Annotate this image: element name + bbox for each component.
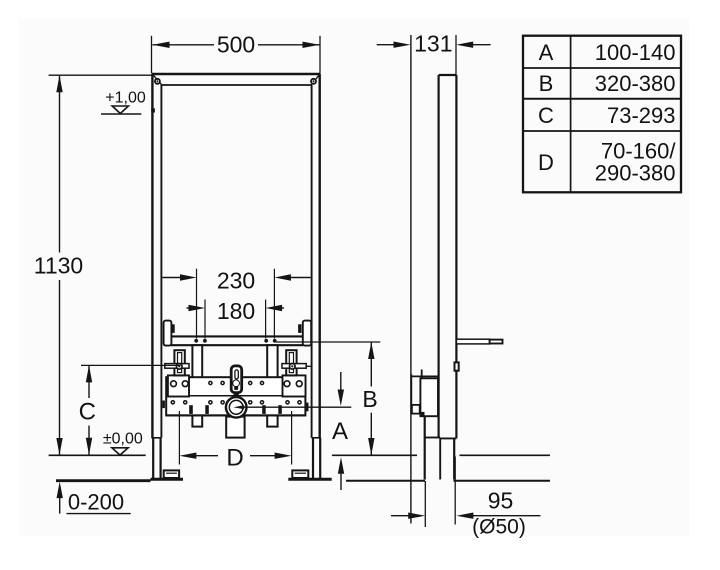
dim 131 text [414,31,452,57]
svg-text:±0,00: ±0,00 [103,431,143,448]
crossbar bolt 1 [194,339,198,343]
right plate hole 2 [296,381,302,387]
dim C line and arrows [86,365,92,454]
left bracket plate [168,375,189,396]
95 extension line front [424,481,426,527]
svg-text:95: 95 [488,488,514,514]
table row B label [539,71,554,96]
central slot fitting [231,366,242,397]
lower floor line segment left [56,479,151,482]
dimension table row dividers [523,68,681,131]
crossbar bolt 3 [264,339,268,343]
right adjuster link line [306,365,311,367]
side bracket foot block [412,405,420,414]
dim 180 extension lines [205,300,266,339]
svg-text:A: A [539,40,554,65]
95 extension line back [454,457,456,525]
dim B extension line [276,341,380,343]
left support post [192,345,202,426]
dim 95 line and arrows [391,513,541,519]
floor level line segment left [49,454,146,456]
dim 0-200 text [68,490,124,515]
side profile back edge [455,75,457,438]
drain pipe block [226,417,244,438]
side leg front edge [424,416,426,479]
dim 230 extension lines [197,269,275,339]
clamp block right edge [306,403,309,412]
frame left rail inner edge [160,85,162,438]
dim 1130 text [34,253,83,279]
left foot base plate [151,478,184,481]
right foot bracket [292,470,308,478]
frame top rail inner edge [162,84,312,86]
dim 95 text [488,488,514,514]
side profile top edge [439,74,457,76]
dim D text [226,445,243,472]
side bracket outer edge [411,374,438,414]
svg-text:131: 131 [414,31,452,57]
right foot base plate [288,478,331,481]
right pivot bolt [290,364,296,370]
side leg joint back [440,437,456,439]
svg-text:290-380: 290-380 [595,161,676,186]
table row D value line1 [601,139,677,164]
side rail clip [455,362,459,370]
dim 131 extension line right [455,35,457,75]
floor level line segment middle [332,454,417,456]
crossbar top edge [171,335,303,337]
dimension table column divider [570,36,572,193]
side leg inner edge [439,438,441,480]
side leg joint front [425,437,441,439]
table row D label [538,150,554,175]
left foot bracket [164,470,179,478]
lower floor line segment middle [346,480,425,482]
table row A value [595,40,676,65]
svg-text:D: D [538,150,554,175]
dim C text [79,399,96,426]
dim 500 extension line right [319,36,321,73]
frame right rail outer edge [319,74,321,438]
crossbar bottom edge [171,344,303,346]
side leg back edge [453,438,455,479]
crossbar bolt 2 [203,339,207,343]
level mark ±0,00 text [103,431,143,448]
svg-text:D: D [226,445,243,472]
dim 0-200 underline [67,513,131,515]
frame top-right corner screw hole [311,79,316,84]
svg-text:B: B [539,71,554,96]
right side strap [303,321,311,346]
left bracket upper arm [174,350,184,375]
level mark +1,00 text [105,90,146,107]
frame top-left corner screw hole [155,79,160,84]
svg-text:+1,00: +1,00 [105,90,146,107]
svg-text:73-293: 73-293 [607,103,676,128]
svg-text:180: 180 [217,298,255,324]
table row B value [595,71,676,96]
dim 1130 top extension line [49,74,152,76]
right adjuster bar [282,364,306,369]
left plate hole 1 [171,381,177,387]
dim D extension lines [179,411,291,465]
crossbar bolt 4 [273,339,277,343]
svg-text:B: B [362,386,377,412]
left adjuster bar [165,364,189,369]
dim 500 line and arrows [153,42,320,48]
mounting plate band [166,377,305,415]
dim 230 text [217,268,255,294]
floor level line segment right [460,454,551,456]
svg-text:(Ø50): (Ø50) [472,516,526,539]
dimension table border [523,36,681,193]
right support post [267,345,277,426]
left leg tube [153,438,160,478]
mounting plate seam [166,395,305,397]
left pivot bolt [176,364,182,370]
dim 180 line and arrows [187,305,285,311]
table row C value [607,103,676,128]
dim C extension line [81,364,181,366]
frame left rail outer edge [151,74,153,438]
right bracket upper arm [286,350,296,375]
dim 131 line and arrows [377,42,491,48]
frame top-left corner chamfer [153,75,162,85]
frame right rail inner edge [311,85,313,438]
dim B text [362,386,377,412]
dim 180 text [217,298,255,324]
svg-text:A: A [332,418,348,445]
dim A upper arrow [338,372,344,406]
svg-text:230: 230 [217,268,255,294]
left plate hole 2 [182,381,188,387]
side bracket corner bolt [421,412,425,416]
svg-text:C: C [538,103,554,128]
frame top rail outer edge [152,73,321,76]
svg-text:0-200: 0-200 [68,490,124,515]
left rail telescope joint [151,437,161,439]
svg-text:100-140: 100-140 [595,40,676,65]
dim B line and arrows [368,342,374,455]
svg-text:320-380: 320-380 [595,71,676,96]
drain center leader arrow [233,405,351,409]
frame top-right corner chamfer [311,75,319,85]
plate small holes row1 [209,381,264,384]
right leg tube [313,438,320,478]
svg-text:500: 500 [217,32,255,58]
clamp block right-post right [278,405,282,414]
svg-text:1130: 1130 [34,253,83,279]
clamp block left-post right [205,405,209,414]
clamp block left edge [162,401,165,409]
dim A text [332,418,348,445]
table row C label [538,103,554,128]
level mark +1,00 triangle [101,106,141,114]
right rail telescope joint [312,437,321,439]
right strap clamp block [298,324,301,333]
dim 1130 line and arrows [56,75,62,455]
left side strap [164,321,172,346]
side profile front edge [438,75,440,438]
dim 0-200 arrow [57,482,63,514]
mounting plate bottom edge [166,414,305,416]
side crossbar wall anchor tip [490,340,503,344]
clamp block right-post left [262,405,266,414]
dim 500 text [217,32,255,58]
clamp block left-post left [189,405,193,414]
dim D line and arrows [179,453,291,459]
dim 500 extension line left [151,36,153,73]
table row A label [539,40,554,65]
side view wall face line [410,35,412,524]
side bracket plate [420,378,438,416]
plate small holes row2 [171,401,301,404]
side crossbar arm [456,339,489,344]
right bracket plate [283,375,306,396]
meter-mark notch on left rail [151,108,155,112]
dim 230 line and arrows [163,274,311,280]
right plate hole 1 [284,381,290,387]
left strap clamp block [171,324,174,333]
dim Ø50 text [472,516,526,539]
svg-text:C: C [79,399,96,426]
drain outlet circle [226,397,247,418]
lower floor line segment right [454,480,551,482]
level mark ±0,00 triangle [112,448,128,455]
dim A lower arrow [338,457,344,490]
table row D value line2 [595,161,676,186]
side bracket adjuster tick [421,370,423,378]
